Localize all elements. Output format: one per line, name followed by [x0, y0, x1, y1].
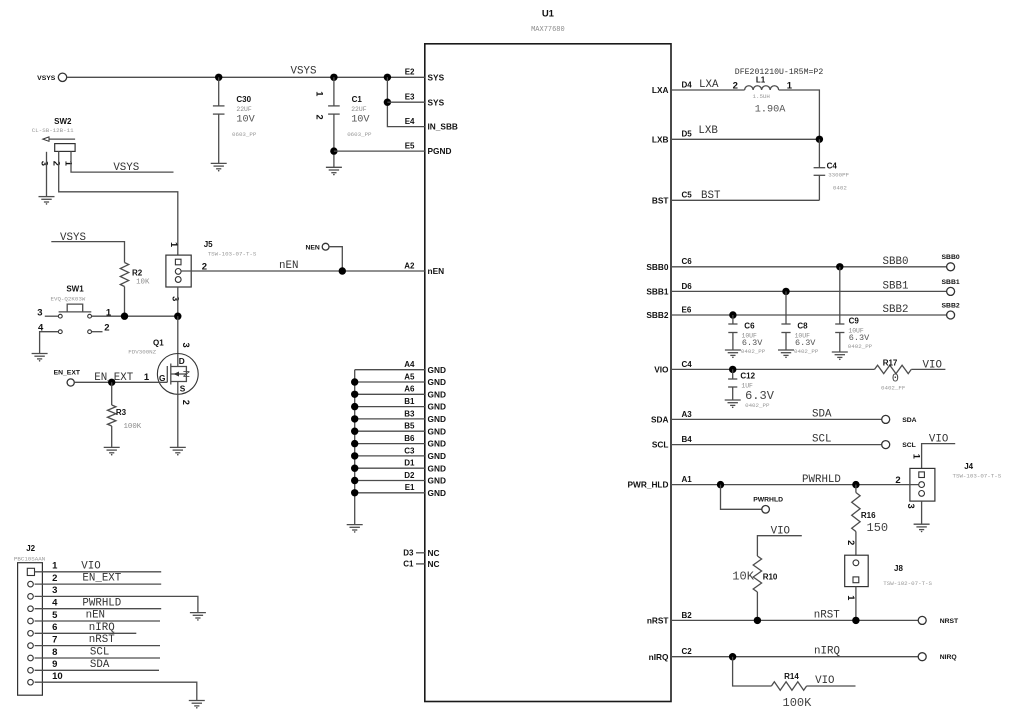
ground C6: [725, 350, 741, 358]
connector J8 pin1 pad: [853, 577, 859, 583]
wire J2 pin10: [35, 682, 197, 700]
svg-text:6.3V: 6.3V: [742, 338, 763, 348]
svg-text:D1: D1: [404, 459, 415, 468]
svg-text:SCL: SCL: [902, 442, 916, 449]
svg-text:J4: J4: [964, 462, 973, 471]
wire SW1 pin4 to ground: [40, 332, 59, 354]
wire L1 to LXB: [779, 90, 820, 139]
svg-text:LXB: LXB: [652, 134, 669, 144]
svg-text:B1: B1: [404, 397, 415, 406]
svg-text:10: 10: [52, 671, 63, 682]
wire SCL row: [671, 444, 882, 446]
terminal SBB1: [942, 279, 960, 296]
svg-text:SYS: SYS: [428, 97, 445, 107]
wire VIO to R10: [757, 536, 801, 556]
svg-text:2: 2: [895, 475, 900, 486]
resistor R14: [771, 682, 806, 690]
resistor R2: [120, 263, 128, 287]
wire nIRQ row: [671, 656, 919, 658]
svg-text:R3: R3: [116, 408, 127, 417]
wire J2 pin2: [35, 583, 162, 585]
junction VSYS/C30: [215, 74, 222, 81]
wire SBB2 row: [671, 314, 947, 316]
connector J4 pin1 pad: [919, 472, 925, 478]
svg-text:R17: R17: [883, 359, 898, 368]
wire Q1 drain: [177, 316, 179, 366]
svg-text:D6: D6: [682, 282, 693, 291]
junction PWRHLD terminal branch: [717, 481, 724, 488]
svg-text:C6: C6: [682, 257, 693, 266]
svg-text:J5: J5: [204, 240, 213, 249]
wire VIO after R17: [911, 368, 945, 370]
svg-text:10V: 10V: [236, 115, 255, 126]
connector J8 body: [845, 555, 869, 586]
terminal SDA: [882, 415, 917, 424]
svg-text:LXA: LXA: [652, 85, 669, 95]
svg-text:NC: NC: [428, 548, 440, 558]
svg-text:TSW-102-07-T-S: TSW-102-07-T-S: [883, 580, 932, 587]
wire NEN drop: [329, 247, 342, 271]
svg-text:NIRQ: NIRQ: [940, 654, 957, 661]
wire J2 pin1: [35, 571, 162, 573]
svg-text:nRST: nRST: [814, 609, 840, 621]
svg-text:0402_FF: 0402_FF: [881, 385, 906, 392]
svg-text:6: 6: [52, 622, 57, 633]
svg-text:A4: A4: [404, 360, 415, 369]
svg-text:3: 3: [181, 343, 191, 348]
svg-text:GND: GND: [428, 439, 446, 449]
svg-text:2: 2: [52, 573, 57, 584]
connector J8 pin2 pad: [853, 560, 859, 566]
junction VIO/C12: [729, 366, 736, 373]
svg-text:B4: B4: [682, 435, 693, 444]
ground C8: [778, 350, 794, 358]
svg-text:1.90A: 1.90A: [755, 105, 786, 116]
svg-text:VIO: VIO: [81, 560, 100, 572]
terminal PWRHLD: [753, 497, 783, 514]
junction C9: [836, 263, 843, 270]
svg-text:GND: GND: [428, 476, 446, 486]
svg-text:VSYS: VSYS: [291, 66, 317, 78]
svg-text:SBB1: SBB1: [883, 281, 909, 293]
svg-text:A6: A6: [404, 385, 415, 394]
svg-text:SW2: SW2: [54, 117, 72, 126]
terminal EN_EXT: [54, 369, 81, 386]
svg-text:0: 0: [892, 372, 899, 386]
svg-text:B6: B6: [404, 434, 415, 443]
junction VSYS/C1: [330, 74, 337, 81]
svg-text:MAX77680: MAX77680: [531, 26, 565, 34]
svg-text:TSW-103-07-T-S: TSW-103-07-T-S: [953, 473, 1002, 480]
wire E3/E4 branch: [387, 77, 424, 126]
svg-text:0402_PP: 0402_PP: [745, 402, 770, 409]
svg-text:9: 9: [52, 659, 57, 670]
ground C9: [832, 352, 848, 360]
svg-text:10K: 10K: [136, 279, 150, 287]
capacitor C12 leads: [732, 369, 734, 400]
capacitor C6 leads: [732, 315, 734, 350]
ground C30: [211, 163, 227, 171]
wire VSYS to R2: [51, 242, 124, 263]
svg-text:2: 2: [51, 161, 61, 166]
wire R2 bottom: [124, 287, 126, 317]
svg-text:SBB2: SBB2: [646, 310, 669, 320]
svg-text:R10: R10: [763, 573, 778, 582]
svg-text:GND: GND: [428, 377, 446, 387]
svg-text:DFE201210U-1R5M=P2: DFE201210U-1R5M=P2: [735, 68, 824, 77]
svg-text:VSYS: VSYS: [37, 75, 56, 82]
capacitor C8 leads: [785, 291, 787, 350]
wire SBB0 row: [671, 266, 947, 268]
wire GND bus vertical: [354, 370, 356, 525]
svg-text:GND: GND: [428, 426, 446, 436]
svg-text:VIO: VIO: [815, 675, 834, 687]
svg-text:S: S: [180, 384, 186, 394]
wire VIO to J4 pin1: [922, 444, 956, 472]
svg-text:GND: GND: [428, 488, 446, 498]
svg-text:GND: GND: [428, 402, 446, 412]
svg-text:10K: 10K: [732, 570, 754, 584]
svg-text:G: G: [159, 373, 165, 383]
svg-text:5: 5: [52, 610, 58, 621]
svg-text:1: 1: [144, 372, 150, 383]
switch SW1 cap: [59, 304, 92, 312]
svg-text:SCL: SCL: [812, 434, 831, 446]
wire SW1 pin2 stub: [92, 331, 103, 333]
ground Q1: [170, 447, 186, 455]
svg-text:NRST: NRST: [940, 618, 959, 625]
capacitor C9 plates: [835, 324, 844, 333]
wire R3 bottom: [111, 426, 113, 447]
capacitor C30 plates: [213, 106, 225, 114]
capacitor C9 leads: [839, 267, 841, 352]
svg-text:0402_PP: 0402_PP: [741, 348, 766, 355]
svg-text:CL-SB-12B-11: CL-SB-12B-11: [32, 127, 74, 134]
svg-text:SBB2: SBB2: [883, 304, 909, 316]
ground C1: [326, 167, 342, 175]
svg-text:0402_PP: 0402_PP: [848, 343, 873, 350]
ground J2 pin3: [190, 613, 206, 621]
wire GND pin rows: [355, 370, 425, 493]
junction E3 branch: [384, 99, 391, 106]
svg-text:U1: U1: [542, 9, 555, 20]
svg-text:VIO: VIO: [923, 359, 942, 371]
svg-text:C4: C4: [682, 360, 693, 369]
svg-text:10V: 10V: [351, 115, 370, 126]
svg-text:D3: D3: [403, 548, 414, 557]
resistor R17: [875, 365, 912, 373]
capacitor C6 plates: [728, 324, 737, 333]
capacitor C4 plates: [814, 168, 826, 176]
wire SW2 pin3 to ground: [46, 152, 48, 197]
wire J2 pin4: [35, 608, 162, 610]
svg-text:IN_SBB: IN_SBB: [428, 122, 458, 132]
pin C1/NC stub: [416, 563, 425, 565]
svg-text:0402: 0402: [833, 185, 847, 192]
svg-text:C4: C4: [827, 162, 838, 171]
switch SW1 contact 2: [88, 330, 92, 334]
wire R14 to VIO: [807, 685, 856, 687]
svg-text:SBB2: SBB2: [942, 302, 960, 309]
svg-text:C12: C12: [740, 372, 755, 381]
wire SW1 pin1 row: [92, 315, 178, 317]
svg-text:nRST: nRST: [647, 616, 669, 626]
svg-text:nIRQ: nIRQ: [89, 622, 115, 634]
svg-text:1: 1: [63, 161, 73, 166]
junction R2/SW1: [121, 313, 128, 320]
svg-text:L1: L1: [756, 76, 766, 85]
svg-text:R14: R14: [784, 672, 799, 681]
svg-text:BST: BST: [652, 195, 669, 205]
switch SW1 contact 3: [58, 314, 62, 318]
wire nIRQ to R14: [733, 657, 772, 686]
svg-text:EN_EXT: EN_EXT: [82, 573, 121, 585]
connector J4 pin2 pad: [919, 482, 925, 488]
svg-text:PBC10SAAN: PBC10SAAN: [14, 556, 46, 563]
terminal NEN: [305, 243, 329, 251]
switch SW2 actuator arrow: [43, 137, 75, 141]
wire J8 pin1 to nRST: [855, 587, 857, 621]
svg-text:2: 2: [104, 323, 109, 334]
svg-text:E2: E2: [405, 68, 415, 77]
wire J5 pin3 down: [177, 287, 179, 316]
svg-text:SBB1: SBB1: [942, 279, 960, 286]
svg-text:E4: E4: [405, 117, 415, 126]
switch SW1 contact 4: [58, 330, 62, 334]
junction VSYS/E3-branch: [384, 74, 391, 81]
wire PWR_HLD row: [671, 484, 919, 486]
junction nRST/R10: [754, 617, 761, 624]
capacitor C4 leads: [818, 139, 820, 200]
wire SDA row: [671, 418, 882, 420]
svg-text:B2: B2: [682, 611, 693, 620]
svg-text:D2: D2: [404, 471, 415, 480]
svg-text:SBB1: SBB1: [646, 287, 669, 297]
wire J2 pin5: [35, 620, 160, 622]
svg-text:SW1: SW1: [66, 285, 84, 294]
ground J4: [914, 524, 930, 532]
svg-text:1: 1: [912, 454, 922, 459]
svg-text:0402_PP: 0402_PP: [794, 348, 819, 355]
wire E3 row: [387, 101, 424, 103]
svg-text:E1: E1: [405, 483, 415, 492]
wire LXA row: [671, 89, 745, 91]
svg-text:GND: GND: [428, 414, 446, 424]
svg-text:2: 2: [315, 115, 325, 120]
wire R16 top: [855, 485, 857, 493]
svg-text:NEN: NEN: [305, 245, 319, 252]
junction nIRQ/R14: [729, 653, 736, 660]
wire VIO row: [671, 368, 875, 370]
wire nEN row: [181, 270, 425, 272]
svg-text:SDA: SDA: [651, 415, 669, 425]
terminal VSYS: [37, 73, 67, 82]
svg-text:SDA: SDA: [812, 408, 832, 420]
wire J2 pin3: [35, 596, 198, 612]
terminal SBB0: [942, 254, 960, 271]
wire PGND row: [334, 150, 425, 152]
svg-text:B3: B3: [404, 409, 415, 418]
wire SW2 pin1 VSYS stub: [71, 151, 174, 172]
svg-text:EVQ-Q2K03W: EVQ-Q2K03W: [51, 296, 86, 303]
svg-text:C30: C30: [236, 95, 251, 104]
svg-text:GND: GND: [428, 451, 446, 461]
svg-text:SBB0: SBB0: [942, 254, 960, 261]
terminal NRST: [918, 616, 959, 625]
transistor Q1 body circle: [157, 354, 198, 395]
svg-text:C8: C8: [797, 322, 808, 331]
svg-text:J8: J8: [894, 564, 903, 573]
svg-text:PGND: PGND: [428, 146, 452, 156]
svg-text:3: 3: [52, 585, 57, 596]
svg-text:D5: D5: [682, 130, 693, 139]
wire LXB row: [671, 138, 819, 140]
svg-text:2: 2: [733, 81, 738, 92]
svg-text:3: 3: [906, 504, 916, 509]
svg-text:C1: C1: [403, 560, 414, 569]
junction EN_EXT/R3: [108, 379, 115, 386]
junction NEN/nEN: [339, 267, 346, 274]
junction R16: [852, 481, 859, 488]
svg-text:3300PF: 3300PF: [828, 172, 849, 179]
svg-text:PWR_HLD: PWR_HLD: [627, 480, 668, 490]
svg-text:VSYS: VSYS: [113, 162, 139, 174]
ground GND bus: [347, 525, 363, 533]
svg-text:C6: C6: [744, 322, 755, 331]
connector J2 pin pads 2-10: [28, 581, 34, 685]
ground SW2: [39, 197, 55, 205]
svg-text:A1: A1: [682, 475, 693, 484]
terminal NIRQ: [918, 653, 957, 662]
junctions GND bus: [351, 378, 358, 496]
switch SW1 contact 1: [88, 314, 92, 318]
svg-text:R16: R16: [861, 511, 876, 520]
IC U1 MAX77680 body: [425, 44, 671, 702]
resistor R16: [852, 493, 860, 532]
svg-text:SCL: SCL: [90, 647, 109, 659]
svg-text:GND: GND: [428, 463, 446, 473]
junction C8: [782, 288, 789, 295]
svg-text:3: 3: [39, 161, 49, 166]
svg-text:A2: A2: [404, 261, 415, 270]
svg-text:E5: E5: [405, 142, 415, 151]
resistor R3: [107, 405, 115, 426]
capacitor C12 plates: [728, 379, 737, 387]
svg-text:LXB: LXB: [698, 125, 718, 137]
wire R3 top: [111, 382, 113, 405]
ground SW1: [32, 354, 48, 362]
switch SW2 body: [55, 144, 75, 152]
svg-text:nEN: nEN: [279, 260, 298, 272]
svg-text:GND: GND: [428, 365, 446, 375]
connector J5 pin2 pad: [175, 269, 181, 275]
wire Q1 source to ground: [177, 394, 179, 447]
junction nRST/J8: [852, 617, 859, 624]
svg-text:C2: C2: [682, 647, 693, 656]
svg-text:E3: E3: [405, 93, 415, 102]
svg-text:22UF: 22UF: [236, 106, 252, 113]
junction C6: [729, 311, 736, 318]
capacitor C1 plates: [328, 106, 340, 114]
wire J2 pin8: [35, 657, 160, 659]
svg-text:100K: 100K: [124, 423, 142, 431]
svg-text:6.3V: 6.3V: [849, 333, 870, 343]
wire nRST row: [671, 619, 919, 621]
connector J5 pin3 pad: [175, 277, 181, 283]
svg-text:6.3V: 6.3V: [795, 338, 816, 348]
svg-text:SYS: SYS: [428, 72, 445, 82]
svg-text:8: 8: [52, 647, 57, 658]
wire R16 to J8: [855, 532, 857, 560]
svg-text:1: 1: [169, 242, 179, 247]
svg-text:R2: R2: [132, 269, 143, 278]
junction LXB/C4: [816, 136, 823, 143]
wire BST row: [671, 199, 819, 201]
svg-text:NC: NC: [428, 559, 440, 569]
svg-text:0603_PP: 0603_PP: [232, 131, 257, 138]
capacitor C8 plates: [781, 324, 790, 333]
svg-text:SBB0: SBB0: [883, 256, 909, 268]
svg-text:D4: D4: [682, 80, 693, 89]
svg-text:4: 4: [52, 598, 58, 609]
svg-text:B5: B5: [404, 422, 415, 431]
svg-text:nIRQ: nIRQ: [814, 646, 840, 658]
wire SW2 pin2 to J5 pin1: [59, 151, 178, 259]
svg-text:2: 2: [846, 540, 856, 545]
capacitor C1 leads: [333, 77, 335, 167]
connector J5 body: [166, 255, 191, 287]
svg-text:BST: BST: [701, 190, 721, 202]
svg-text:1: 1: [315, 91, 325, 96]
svg-text:6.3V: 6.3V: [745, 389, 775, 403]
pin D3/NC stub: [416, 552, 425, 554]
svg-text:C5: C5: [682, 191, 693, 200]
terminal SBB2: [942, 302, 960, 319]
svg-text:nEN: nEN: [428, 266, 445, 276]
connector J4 body: [910, 468, 935, 501]
svg-text:2: 2: [181, 400, 191, 405]
wire VSYS main: [67, 76, 425, 78]
svg-text:LXA: LXA: [699, 79, 719, 91]
svg-text:nIRQ: nIRQ: [649, 652, 669, 662]
svg-text:7: 7: [52, 634, 57, 645]
svg-text:A3: A3: [682, 410, 693, 419]
svg-text:VIO: VIO: [654, 365, 669, 375]
connector J5 pin1 pad: [175, 259, 181, 265]
ground R3: [104, 447, 120, 455]
capacitor C30 leads: [218, 77, 220, 163]
svg-text:GND: GND: [428, 389, 446, 399]
svg-text:C3: C3: [404, 446, 415, 455]
svg-text:PWRHLD: PWRHLD: [82, 597, 121, 609]
svg-text:Q1: Q1: [153, 339, 164, 348]
resistor R10: [753, 556, 761, 592]
svg-text:1: 1: [52, 561, 58, 572]
svg-text:FDV300NZ: FDV300NZ: [128, 349, 156, 356]
svg-text:0603_PP: 0603_PP: [347, 131, 372, 138]
svg-text:SCL: SCL: [652, 440, 669, 450]
svg-text:3: 3: [171, 296, 181, 301]
svg-text:SDA: SDA: [902, 417, 916, 424]
svg-text:J2: J2: [26, 544, 35, 553]
svg-text:PWRHLD: PWRHLD: [753, 497, 783, 504]
svg-text:nEN: nEN: [86, 610, 105, 622]
terminal SCL: [882, 441, 916, 450]
svg-text:E6: E6: [682, 305, 692, 314]
svg-text:EN_EXT: EN_EXT: [54, 369, 81, 376]
svg-text:SBB0: SBB0: [646, 262, 669, 272]
svg-text:3: 3: [37, 308, 42, 319]
